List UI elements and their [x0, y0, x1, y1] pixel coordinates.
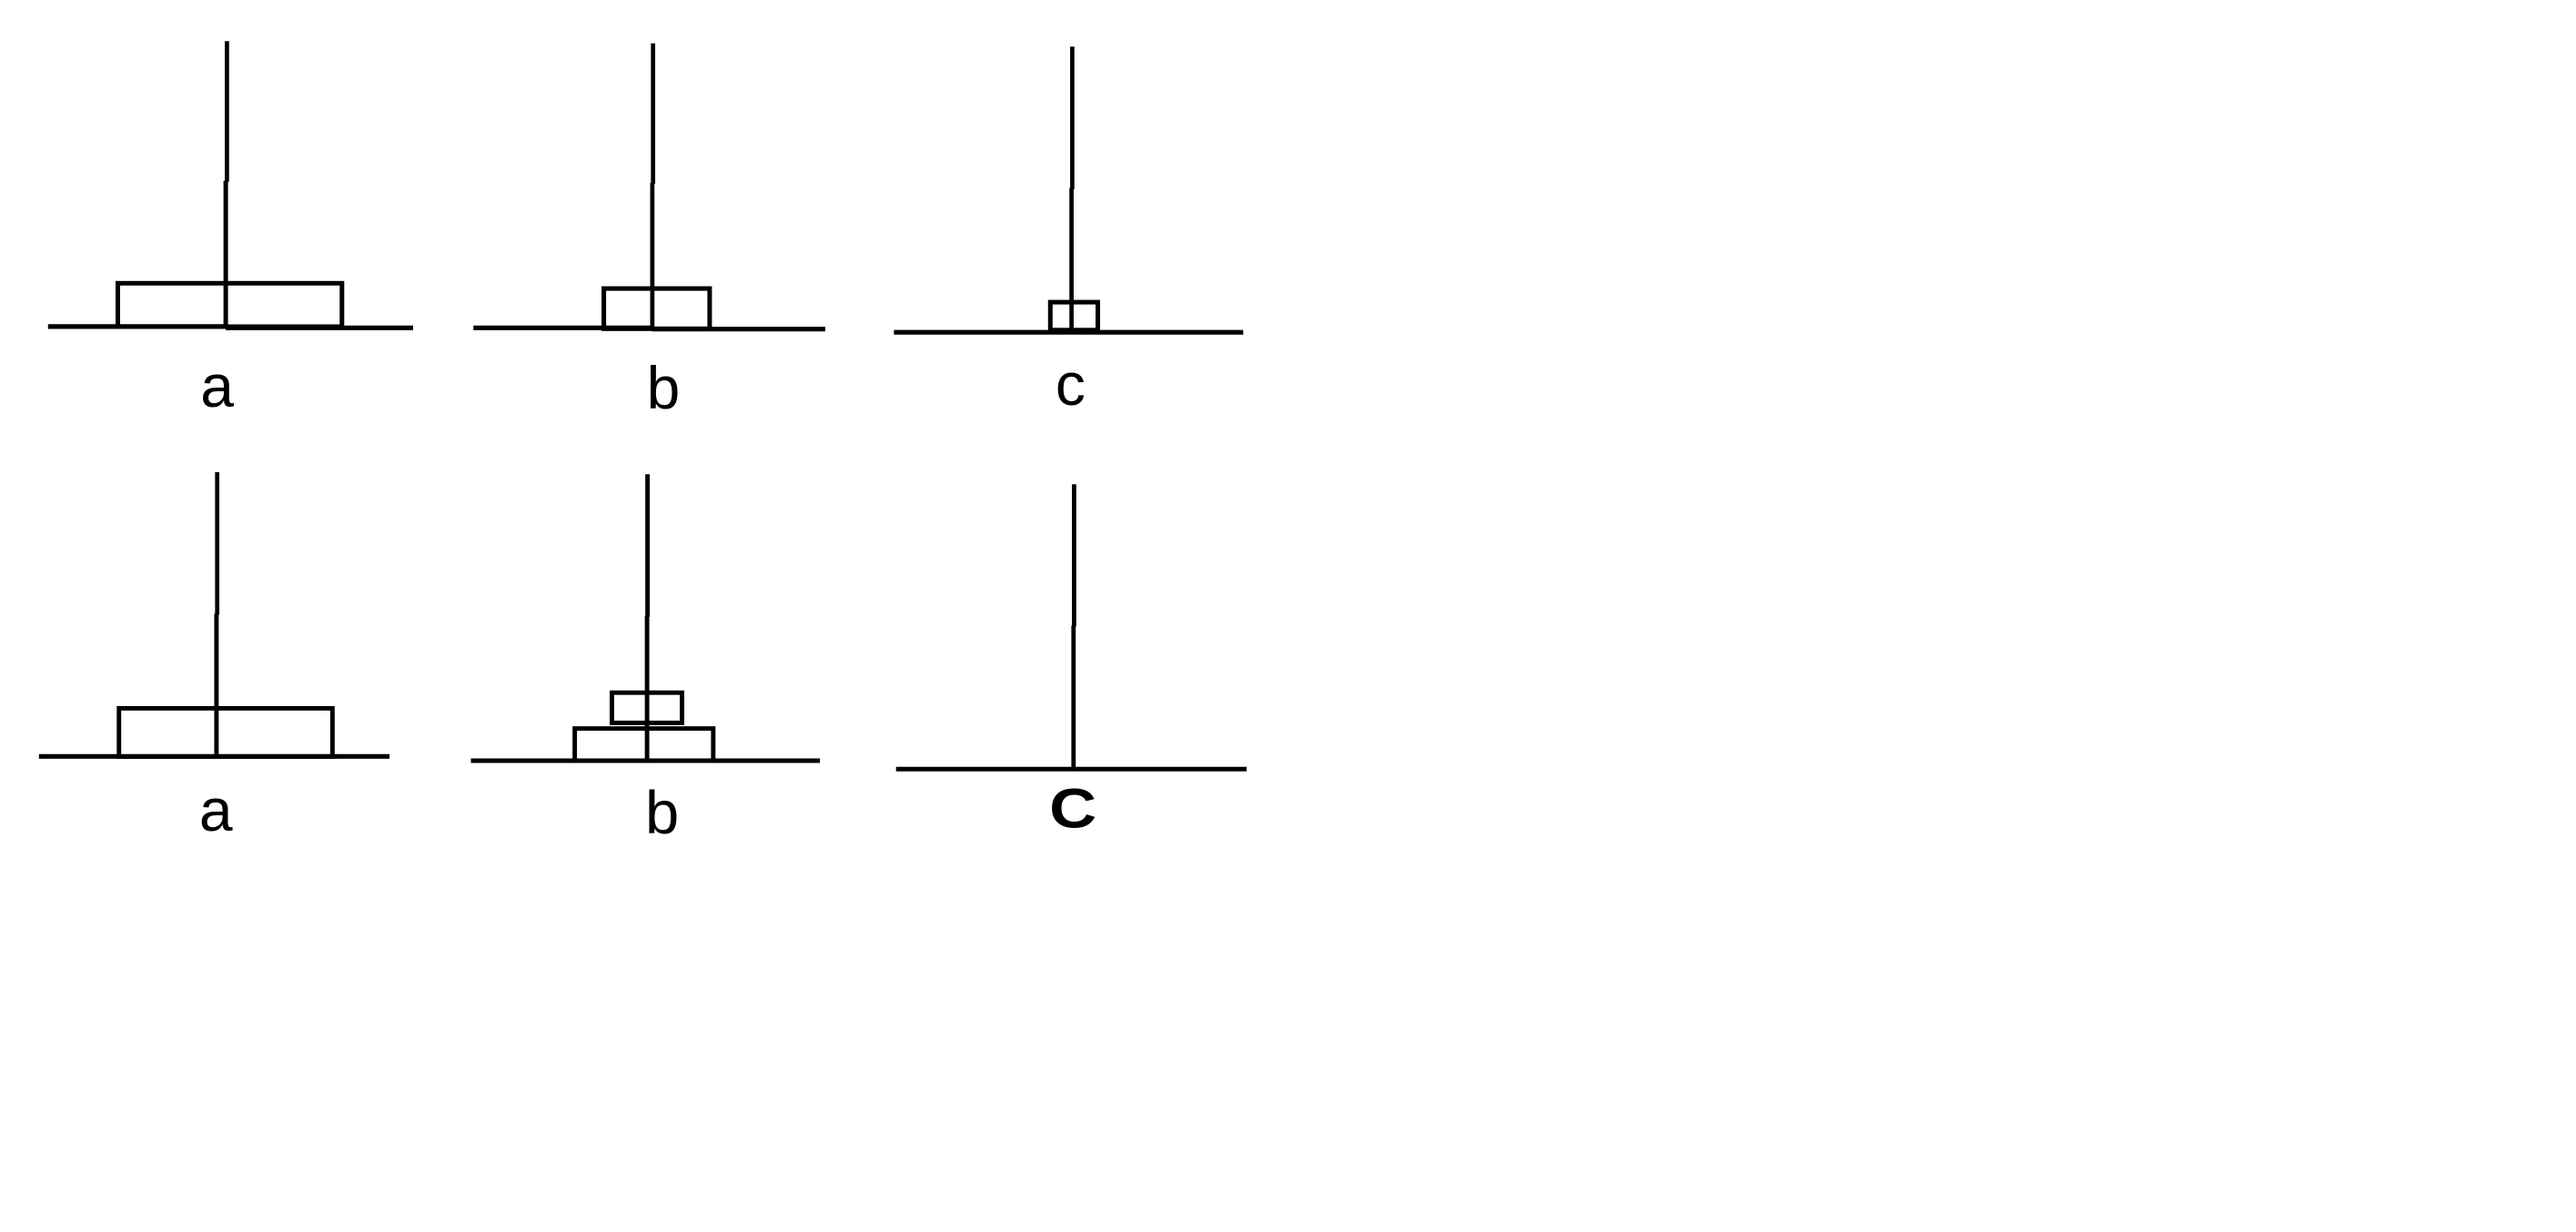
peg pole upper segment: [225, 41, 229, 182]
baseline: [471, 759, 821, 763]
peg pole lower segment: [1069, 188, 1074, 332]
svg-text:b: b: [645, 779, 679, 847]
peg pole upper segment: [1070, 46, 1075, 189]
figure 1b: peg with one medium disk: [473, 44, 825, 329]
small disk outline: [1050, 302, 1097, 330]
peg pole lower segment: [1071, 626, 1076, 770]
figure 1c: peg with one small disk: [894, 46, 1243, 332]
figure 2b: peg with two stacked disks: [471, 474, 821, 761]
peg pole upper segment: [1072, 484, 1076, 626]
medium disk outline: [604, 288, 710, 328]
peg pole lower segment: [645, 616, 650, 761]
peg pole upper segment: [215, 472, 219, 615]
svg-text:c: c: [1056, 350, 1086, 418]
figure 1a: peg with one wide disk: [48, 41, 413, 328]
peg pole lower segment: [651, 183, 655, 329]
figure 2c: empty peg: [896, 484, 1247, 769]
svg-text:a: a: [200, 352, 234, 419]
baseline (ground line) right segment: [226, 326, 413, 330]
small top disk outline: [611, 692, 682, 722]
baseline: [39, 754, 389, 759]
wide disk outline: [118, 283, 342, 327]
svg-text:a: a: [199, 776, 233, 843]
wide disk outline: [119, 708, 333, 756]
svg-text:b: b: [647, 354, 681, 421]
baseline: [896, 767, 1247, 772]
figure 2a: peg with one wide disk: [39, 472, 389, 757]
svg-text:C: C: [1049, 778, 1096, 840]
big bottom disk outline: [575, 729, 713, 761]
peg pole upper segment: [645, 474, 650, 617]
peg pole lower segment: [214, 614, 218, 757]
baseline: [894, 330, 1243, 335]
baseline left segment: [473, 326, 653, 330]
baseline (ground line) left segment: [48, 324, 227, 328]
peg pole upper segment: [651, 44, 655, 184]
baseline right segment: [652, 327, 825, 331]
peg pole lower segment: [224, 181, 228, 327]
